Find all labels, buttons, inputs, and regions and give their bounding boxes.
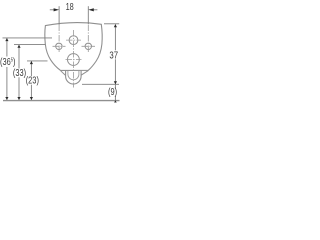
svg-text:(365): (365) [0, 56, 16, 67]
svg-text:37: 37 [109, 49, 118, 60]
svg-text:(9): (9) [108, 86, 117, 97]
svg-text:18: 18 [66, 1, 74, 12]
svg-text:(33): (33) [13, 67, 26, 78]
svg-text:(23): (23) [26, 74, 39, 85]
